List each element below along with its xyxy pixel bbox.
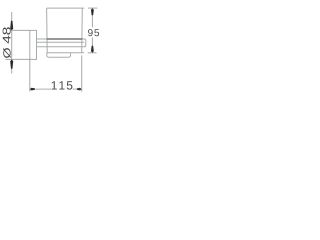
extension line top (plate top, left)	[11, 29, 30, 31]
cup bottom line	[47, 52, 84, 54]
cup left edge	[46, 8, 49, 53]
bottom extension line to 95 dimension	[88, 52, 97, 54]
holder ring middle line	[37, 41, 85, 43]
arrow O48 upper (pointing down)	[10, 21, 13, 31]
arrow 115 right (pointing right)	[77, 88, 82, 91]
dimension line 115 left segment	[30, 88, 51, 90]
dimension line 115 right segment	[73, 88, 82, 90]
holder ring bottom and right cap	[37, 39, 86, 47]
glass base	[47, 53, 71, 57]
dimension line 95 upper segment	[91, 8, 93, 27]
label 115	[52, 81, 73, 89]
extension line bottom (plate bottom, left)	[6, 58, 30, 60]
dimension line 95 lower segment	[91, 37, 93, 53]
cup top rim line	[47, 7, 85, 9]
arrow 95 bottom (pointing down)	[91, 46, 94, 53]
wall plate	[30, 30, 37, 59]
arrow O48 lower (pointing up)	[10, 59, 13, 68]
arrow 95 top (pointing up)	[91, 8, 94, 15]
115 left extension line	[29, 60, 31, 92]
top extension line to 95 dimension	[88, 7, 97, 9]
label 95	[88, 29, 99, 36]
dimension line O48	[11, 12, 13, 74]
115 right extension line	[81, 56, 83, 92]
cup right edge	[81, 8, 84, 53]
holder ring dark top edge	[47, 38, 83, 40]
holder ring top edge (light segment from plate)	[37, 38, 47, 40]
label O48 (rotated)	[3, 27, 11, 58]
arrow 115 left (pointing left)	[30, 88, 35, 91]
